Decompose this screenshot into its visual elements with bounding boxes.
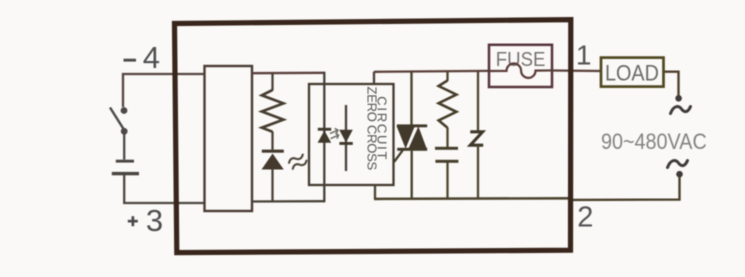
label terminal 4 (minus) <box>124 40 160 75</box>
fuse F1 box <box>489 45 552 87</box>
wire AC source bottom to terminal 2 <box>572 176 680 200</box>
wire led branch vertical top <box>271 73 273 91</box>
label 90~480VAC <box>601 130 707 154</box>
wire battery to terminal 3 (bottom left) <box>124 175 204 203</box>
resistor R1 <box>262 90 284 132</box>
SSR outer case box <box>175 20 571 253</box>
wire top rail left segment <box>252 72 325 75</box>
wire resistor to LED <box>271 132 273 150</box>
wire bottom rail left segment <box>252 200 325 203</box>
svg-text:2: 2 <box>577 201 593 233</box>
wire capacitor to bottom rail <box>446 163 448 199</box>
photodiode D3 (conducts down) <box>339 130 353 145</box>
LED D1 (emitting diode) <box>262 150 284 170</box>
AC terminal dot top <box>675 95 682 102</box>
wire box output up to top rail <box>373 72 375 85</box>
photodiode line right (internal) <box>345 105 347 171</box>
wire resistor to capacitor <box>446 128 448 148</box>
AC tilde top <box>671 107 691 114</box>
photodiode D2 (conducts up) <box>318 128 332 143</box>
light coupling arrows <box>331 129 339 139</box>
triac gate wire <box>394 150 403 162</box>
wire fuse to terminal 1 and LOAD <box>552 69 601 72</box>
fuse label <box>496 49 546 71</box>
label terminal 3 (plus) <box>128 203 163 238</box>
wire varistor to bottom rail <box>477 145 479 198</box>
svg-text:4: 4 <box>143 40 160 75</box>
wire photodiode branch (through box, top rail to bottom rail) <box>323 72 325 203</box>
varistor RV1 (Z symbol) <box>470 132 483 145</box>
AC tilde bottom <box>668 161 688 168</box>
wire top rail right segment <box>374 70 489 73</box>
capacitor C1 (snubber) <box>435 147 458 163</box>
svg-text:LOAD: LOAD <box>605 61 659 85</box>
svg-text:3: 3 <box>146 203 163 238</box>
wire LED to bottom rail <box>271 169 273 203</box>
battery B1 <box>112 160 139 176</box>
wire bottom rail right segment <box>374 197 572 200</box>
LED light emission squiggles <box>288 154 308 170</box>
label ZERO CROSS (vertical) <box>364 87 379 171</box>
zero cross circuit box <box>309 84 394 185</box>
load box <box>601 58 664 87</box>
input block (tall rectangle) <box>205 66 253 211</box>
label CIRCUIT (vertical) <box>375 96 390 161</box>
wire load to AC source top <box>664 72 679 96</box>
svg-text:1: 1 <box>576 39 592 70</box>
switch S (open) <box>110 108 127 135</box>
load label <box>605 61 659 85</box>
wire switch to battery <box>123 133 125 160</box>
svg-text:CIRCUIT: CIRCUIT <box>375 96 390 161</box>
AC terminal dot bottom <box>676 171 683 178</box>
resistor R2 (snubber) <box>439 81 457 128</box>
wire snubber branch top <box>446 71 448 81</box>
wire box bottom to bottom rail <box>374 185 376 199</box>
triac Q1 <box>397 71 427 199</box>
svg-text:90~480VAC: 90~480VAC <box>601 130 707 154</box>
wire varistor branch top <box>477 71 479 133</box>
fuse element wire <box>489 64 552 78</box>
wire input top (terminal 4 to input block) <box>123 74 204 107</box>
